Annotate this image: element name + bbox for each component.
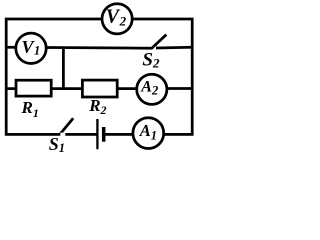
ammeter A1 circle bbox=[133, 118, 164, 149]
switch S1 blade bbox=[60, 118, 74, 135]
wire outer border rectangle bbox=[6, 19, 192, 134]
voltmeter V2 circle bbox=[102, 4, 132, 34]
wire row2 right segment (S2 to right border) bbox=[156, 46, 192, 49]
resistor R1 bbox=[16, 80, 51, 96]
ammeter A2 circle bbox=[137, 74, 167, 104]
resistor R2 bbox=[82, 80, 117, 97]
voltmeter V1 circle bbox=[16, 33, 46, 63]
gap for battery bbox=[97, 133, 105, 136]
battery long plate bbox=[96, 119, 98, 149]
battery B1 bbox=[97, 119, 103, 149]
wire row3 (resistor branch) bbox=[6, 87, 137, 90]
wire row3 right segment (A2 to right border) bbox=[166, 87, 192, 90]
wire row2 left segment (through V1 to S2 pivot) bbox=[6, 47, 151, 48]
battery short plate bbox=[102, 127, 106, 142]
gap for switch S1 bbox=[60, 133, 65, 136]
wire vertical junction connector bbox=[62, 48, 65, 89]
gaps in bottom border for S1 and battery bbox=[60, 133, 104, 136]
switch S2 blade bbox=[151, 35, 166, 49]
